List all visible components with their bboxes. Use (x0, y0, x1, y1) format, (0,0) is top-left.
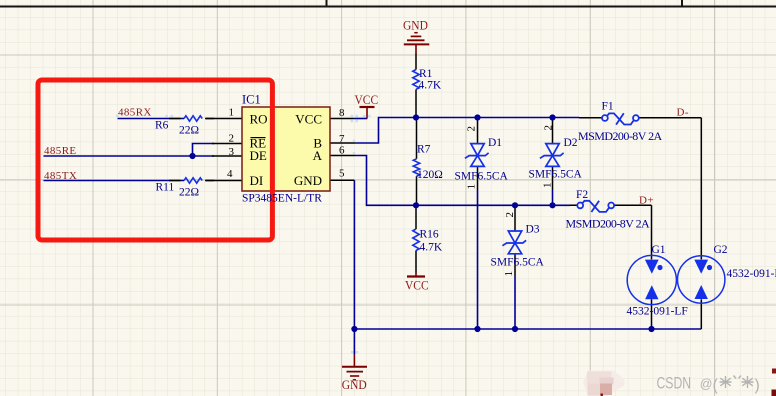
svg-text:22Ω: 22Ω (179, 187, 199, 199)
svg-text:D-: D- (677, 107, 689, 119)
svg-text:485TX: 485TX (44, 170, 77, 182)
svg-text:@: @ (700, 377, 713, 391)
svg-text:4: 4 (227, 168, 233, 180)
svg-text:4532-091-LF: 4532-091-LF (727, 268, 776, 280)
svg-text:1: 1 (465, 184, 477, 190)
svg-text:(: ( (713, 377, 719, 394)
svg-text:F2: F2 (576, 189, 588, 201)
svg-text:8: 8 (339, 107, 345, 119)
svg-text:G1: G1 (652, 244, 666, 256)
svg-text:485RX: 485RX (118, 107, 152, 119)
svg-text:3: 3 (229, 146, 235, 158)
svg-text:1: 1 (229, 107, 235, 119)
svg-text:R7: R7 (417, 144, 431, 156)
svg-text:D3: D3 (526, 224, 540, 236)
svg-text:F1: F1 (602, 101, 614, 113)
svg-text:120Ω: 120Ω (417, 169, 443, 181)
svg-text:6: 6 (339, 145, 345, 157)
svg-text:VCC: VCC (295, 112, 322, 127)
svg-text:2: 2 (504, 212, 516, 218)
svg-text:DE: DE (250, 148, 267, 163)
svg-text:D1: D1 (488, 137, 502, 149)
svg-text:R16: R16 (420, 229, 439, 241)
svg-text:G2: G2 (714, 244, 728, 256)
svg-text:7: 7 (339, 133, 345, 145)
svg-text:D+: D+ (639, 195, 654, 207)
svg-text:D2: D2 (564, 137, 578, 149)
svg-text:): ) (755, 377, 760, 394)
svg-text:2: 2 (229, 132, 235, 144)
svg-text:1: 1 (542, 183, 554, 189)
svg-text:SMF6.5CA: SMF6.5CA (455, 170, 509, 182)
svg-text:IC1: IC1 (242, 93, 261, 107)
svg-text:SMF6.5CA: SMF6.5CA (491, 256, 545, 268)
svg-text:4532-091-LF: 4532-091-LF (627, 306, 688, 318)
svg-text:VCC: VCC (355, 92, 379, 107)
svg-text:4.7K: 4.7K (420, 242, 443, 254)
svg-text:GND: GND (294, 173, 322, 188)
svg-text:R1: R1 (419, 68, 433, 80)
svg-text:GND: GND (403, 18, 428, 33)
svg-text:485RE: 485RE (44, 145, 77, 157)
svg-text:RO: RO (250, 112, 268, 127)
svg-text:CSDN: CSDN (657, 375, 692, 393)
svg-text:MSMD200-8V 2A: MSMD200-8V 2A (578, 129, 663, 143)
svg-text:GND: GND (342, 378, 367, 393)
svg-text:R11: R11 (156, 182, 175, 194)
svg-text:2: 2 (465, 126, 477, 132)
svg-text:4.7K: 4.7K (419, 80, 442, 92)
svg-text:MSMD200-8V 2A: MSMD200-8V 2A (566, 216, 651, 230)
svg-text:R6: R6 (155, 120, 169, 132)
svg-text:2: 2 (543, 125, 555, 131)
svg-text:SMF6.5CA: SMF6.5CA (529, 168, 583, 180)
svg-text:VCC: VCC (405, 278, 429, 293)
svg-text:SP3485EN-L/TR: SP3485EN-L/TR (242, 193, 322, 205)
svg-text:22Ω: 22Ω (179, 125, 199, 137)
svg-text:DI: DI (250, 173, 264, 188)
svg-text:A: A (313, 148, 323, 163)
svg-text:1: 1 (503, 271, 515, 277)
svg-text:5: 5 (339, 168, 345, 180)
